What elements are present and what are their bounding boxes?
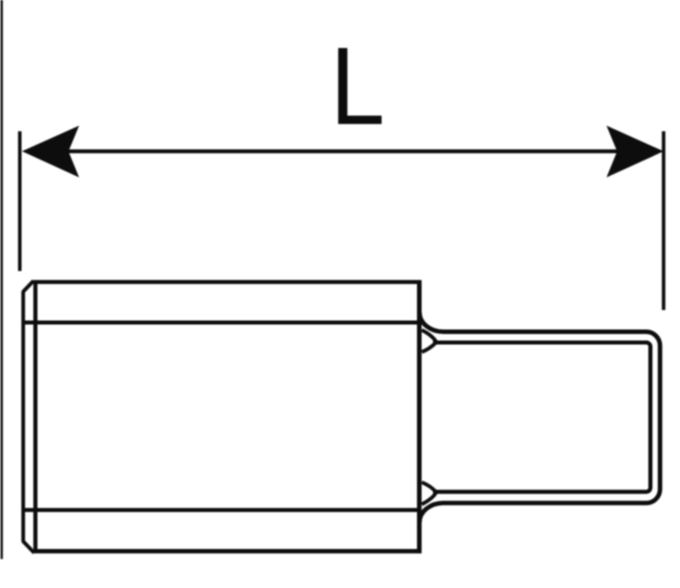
svg-text:L: L	[330, 25, 385, 149]
